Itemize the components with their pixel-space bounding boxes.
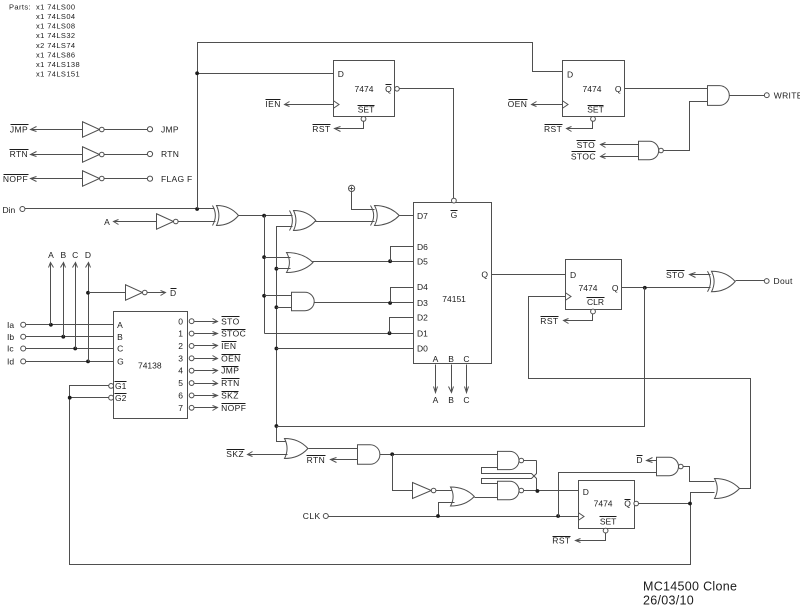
svg-text:D7: D7 bbox=[417, 211, 428, 221]
svg-text:NOPF: NOPF bbox=[3, 174, 28, 184]
svg-text:NOPF: NOPF bbox=[221, 403, 246, 413]
svg-text:WRITE: WRITE bbox=[774, 90, 800, 100]
svg-text:CLR: CLR bbox=[587, 297, 604, 307]
svg-text:RTN: RTN bbox=[221, 378, 240, 388]
svg-text:Q: Q bbox=[624, 499, 631, 509]
svg-text:D3: D3 bbox=[417, 298, 428, 308]
svg-text:D: D bbox=[583, 487, 589, 497]
svg-text:D4: D4 bbox=[417, 282, 428, 292]
svg-text:A: A bbox=[433, 354, 439, 364]
svg-text:7474: 7474 bbox=[583, 84, 602, 94]
svg-text:A: A bbox=[117, 320, 123, 330]
svg-text:RTN: RTN bbox=[307, 455, 326, 465]
svg-text:x1 74LS151: x1 74LS151 bbox=[36, 70, 80, 79]
svg-text:A: A bbox=[48, 250, 54, 260]
svg-text:x1 74LS138: x1 74LS138 bbox=[36, 60, 80, 69]
svg-text:B: B bbox=[448, 354, 454, 364]
svg-text:D0: D0 bbox=[417, 344, 428, 354]
svg-text:RST: RST bbox=[544, 124, 562, 134]
svg-text:7474: 7474 bbox=[594, 499, 613, 509]
svg-text:26/03/10: 26/03/10 bbox=[643, 594, 694, 607]
svg-text:C: C bbox=[72, 250, 78, 260]
svg-text:7: 7 bbox=[178, 403, 183, 413]
svg-text:RST: RST bbox=[540, 316, 558, 326]
svg-text:SET: SET bbox=[358, 105, 375, 115]
svg-text:D2: D2 bbox=[417, 313, 428, 323]
svg-text:RST: RST bbox=[552, 536, 570, 546]
svg-text:74138: 74138 bbox=[138, 361, 162, 371]
svg-text:x1 74LS08: x1 74LS08 bbox=[36, 22, 75, 31]
svg-text:7474: 7474 bbox=[355, 84, 374, 94]
svg-text:CLK: CLK bbox=[303, 511, 321, 521]
svg-text:D6: D6 bbox=[417, 242, 428, 252]
svg-text:B: B bbox=[448, 395, 454, 405]
svg-text:C: C bbox=[463, 354, 469, 364]
svg-text:7474: 7474 bbox=[579, 283, 598, 293]
svg-text:Ia: Ia bbox=[7, 320, 14, 330]
svg-text:x2 74LS74: x2 74LS74 bbox=[36, 41, 75, 50]
svg-text:RST: RST bbox=[312, 124, 330, 134]
svg-text:D: D bbox=[170, 288, 176, 298]
svg-text:JMP: JMP bbox=[221, 366, 239, 376]
svg-text:B: B bbox=[60, 250, 66, 260]
svg-text:A: A bbox=[104, 217, 110, 227]
svg-text:B: B bbox=[117, 332, 123, 342]
svg-text:4: 4 bbox=[178, 366, 183, 376]
svg-text:Q: Q bbox=[385, 84, 392, 94]
svg-text:D: D bbox=[567, 70, 573, 80]
svg-text:FLAG F: FLAG F bbox=[161, 174, 193, 184]
svg-text:STOC: STOC bbox=[221, 329, 246, 339]
svg-text:STOC: STOC bbox=[571, 151, 596, 161]
svg-text:RTN: RTN bbox=[161, 149, 179, 159]
svg-text:x1 74LS32: x1 74LS32 bbox=[36, 31, 75, 40]
svg-text:IEN: IEN bbox=[265, 99, 280, 109]
svg-text:x1 74LS00: x1 74LS00 bbox=[36, 2, 75, 11]
svg-text:SKZ: SKZ bbox=[226, 449, 244, 459]
svg-text:D1: D1 bbox=[417, 328, 428, 338]
svg-text:Q: Q bbox=[615, 84, 622, 94]
svg-text:STO: STO bbox=[577, 140, 596, 150]
svg-text:STO: STO bbox=[666, 270, 685, 280]
svg-text:JMP: JMP bbox=[10, 124, 28, 134]
svg-text:SET: SET bbox=[587, 105, 604, 115]
svg-text:0: 0 bbox=[178, 316, 183, 326]
svg-text:D: D bbox=[85, 250, 91, 260]
svg-text:Q: Q bbox=[481, 269, 488, 279]
svg-text:Din: Din bbox=[3, 205, 16, 215]
svg-text:x1 74LS86: x1 74LS86 bbox=[36, 50, 75, 59]
svg-text:A: A bbox=[433, 395, 439, 405]
svg-text:Ic: Ic bbox=[7, 344, 14, 354]
svg-text:2: 2 bbox=[178, 341, 183, 351]
svg-text:G2: G2 bbox=[115, 393, 127, 403]
svg-text:D: D bbox=[338, 69, 344, 79]
svg-text:STO: STO bbox=[221, 316, 240, 326]
svg-text:74151: 74151 bbox=[442, 294, 466, 304]
svg-text:x1 74LS04: x1 74LS04 bbox=[36, 12, 75, 21]
svg-text:Ib: Ib bbox=[7, 332, 14, 342]
svg-text:D: D bbox=[636, 455, 642, 465]
svg-text:SET: SET bbox=[600, 516, 617, 526]
svg-text:Id: Id bbox=[7, 357, 14, 367]
svg-text:Q: Q bbox=[612, 283, 619, 293]
svg-text:C: C bbox=[117, 344, 123, 354]
svg-text:3: 3 bbox=[178, 353, 183, 363]
svg-text:5: 5 bbox=[178, 378, 183, 388]
svg-text:G: G bbox=[117, 357, 124, 367]
svg-text:Dout: Dout bbox=[774, 276, 793, 286]
svg-text:C: C bbox=[463, 395, 469, 405]
svg-text:D: D bbox=[570, 270, 576, 280]
svg-text:G: G bbox=[451, 210, 458, 220]
svg-text:MC14500 Clone: MC14500 Clone bbox=[643, 580, 737, 594]
svg-text:D5: D5 bbox=[417, 256, 428, 266]
svg-text:1: 1 bbox=[178, 329, 183, 339]
svg-text:G1: G1 bbox=[115, 381, 127, 391]
svg-text:IEN: IEN bbox=[221, 341, 236, 351]
svg-text:RTN: RTN bbox=[10, 149, 29, 159]
svg-text:OEN: OEN bbox=[508, 99, 528, 109]
svg-text:6: 6 bbox=[178, 391, 183, 401]
svg-text:JMP: JMP bbox=[161, 124, 179, 134]
svg-text:Parts:: Parts: bbox=[9, 2, 31, 11]
